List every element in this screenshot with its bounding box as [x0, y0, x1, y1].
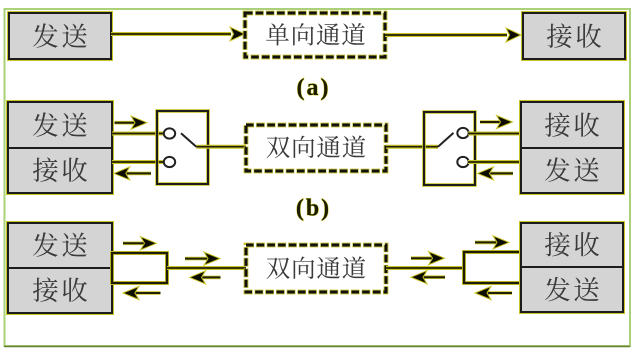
switch S2 lever	[438, 133, 454, 147]
arrow: data out of right sender	[478, 167, 514, 180]
dashed box: one-way channel 单向通道	[245, 13, 385, 57]
arrow: reverse data on right line (row c)	[411, 271, 445, 284]
arrow: data into left receiver	[114, 167, 151, 180]
arrow: data out of left sender	[115, 116, 148, 129]
wire: sender to one-way channel	[111, 32, 231, 36]
arrowhead into one-way channel	[230, 27, 245, 41]
box: left station 发送/接收 (row c)	[7, 222, 113, 314]
arrow: data out of left sender (row c)	[123, 237, 157, 250]
wire: switch S1 to two-way channel	[196, 145, 246, 149]
coupler box left (row c)	[112, 253, 167, 283]
box: right station 接收/发送 (row c)	[520, 222, 624, 313]
arrow: forward data on right line (row c)	[411, 252, 445, 265]
wire: left coupler to two-way channel (row c)	[167, 266, 246, 270]
switch S2 contact circle bottom	[457, 157, 468, 167]
arrow: data into left receiver (row c)	[123, 286, 161, 299]
switch S1 contact circle bottom	[164, 157, 175, 167]
switch S2 contact circle top	[457, 128, 468, 138]
coupler box right (row c)	[464, 252, 521, 283]
box: right station 接收/发送 (row b)	[520, 101, 624, 194]
wire: left station receive to switch contact	[112, 160, 165, 164]
wire: one-way channel to receiver	[385, 33, 507, 37]
box: receiver 接收 (row a)	[522, 12, 626, 60]
dashed box: two-way channel 双向通道 (row c)	[246, 245, 386, 292]
switch S1 box (left)	[157, 111, 208, 184]
arrow: data into right receiver (row c)	[475, 236, 509, 249]
box: left station 发送/接收 (row b)	[7, 101, 113, 194]
wire: switch contact to right station send	[468, 160, 521, 164]
switch S1 contact circle top	[164, 128, 175, 138]
arrow: data into right receiver	[480, 115, 513, 128]
wire: two-way channel to switch S2	[386, 145, 438, 149]
arrowhead into receiver	[506, 28, 521, 42]
wire: left station send to switch contact	[112, 132, 165, 136]
wire: switch contact to right station receive	[468, 132, 521, 136]
dashed box: two-way channel 双向通道 (row b)	[246, 125, 386, 171]
svg-text:(a): (a)	[297, 75, 331, 101]
arrow: reverse data on left line (row c)	[190, 271, 221, 284]
arrow: data out of right sender (row c)	[475, 286, 512, 299]
wire: two-way channel to right coupler (row c)	[386, 266, 464, 270]
switch S1 lever	[181, 133, 196, 147]
switch S2 box (right)	[424, 112, 475, 185]
box: sender 发送 (row a)	[8, 12, 112, 60]
svg-text:(b): (b)	[296, 196, 331, 222]
arrow: forward data on left line (row c)	[185, 252, 220, 265]
